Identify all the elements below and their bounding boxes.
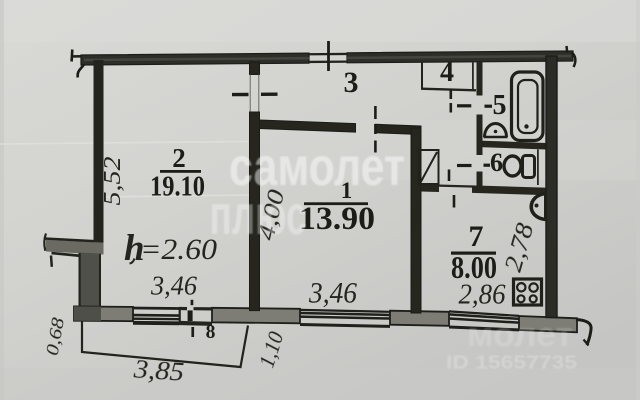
svg-text:19.10: 19.10	[150, 171, 205, 203]
wall: bottom exterior segment B	[212, 308, 300, 324]
svg-text:ID 15657735: ID 15657735	[446, 353, 577, 373]
tick: left step	[50, 256, 53, 267]
hook: top-left below wall	[78, 65, 84, 78]
label: room 7 underline	[451, 252, 496, 255]
svg-text:6: 6	[490, 148, 503, 177]
wall: bottom exterior segment A	[74, 306, 133, 321]
svg-text:4: 4	[440, 57, 454, 88]
svg-text:3,46: 3,46	[308, 277, 357, 310]
window: kitchen	[449, 310, 519, 331]
door: entrance opening lines	[309, 53, 347, 63]
stove	[514, 279, 542, 305]
wall: kitchen top (left piece)	[421, 184, 439, 192]
bathtub	[512, 72, 544, 141]
window: room 2	[133, 307, 179, 326]
svg-text:плюс: плюс	[210, 183, 307, 246]
door axis: balcony door	[188, 300, 194, 337]
door axis: kitchen door	[453, 195, 456, 208]
tick: top-left wall end	[70, 50, 73, 62]
svg-text:молет: молет	[467, 316, 573, 354]
wash sink (bathroom)	[484, 124, 508, 137]
door axis: room 2 door	[232, 93, 249, 96]
window: room 2 right jamb	[179, 307, 181, 325]
svg-text:3,46: 3,46	[150, 271, 197, 301]
hook: bottom-right wall end	[576, 320, 591, 346]
balcony outline	[82, 322, 248, 368]
wall: bath/toilet divider	[477, 141, 547, 150]
svg-text:3,85: 3,85	[132, 354, 185, 386]
wall: kitchen top (opening lintel line)	[439, 185, 472, 188]
svg-text:7: 7	[469, 220, 484, 253]
wall: kitchen top (right piece)	[472, 185, 557, 195]
wall: room1/kitchen divider	[411, 128, 421, 313]
door: room 2 doorway face lines	[250, 75, 259, 112]
svg-text:5,52: 5,52	[100, 157, 126, 206]
wall: left step ledge gray band	[46, 240, 104, 255]
wall: bottom exterior segment D	[519, 316, 577, 332]
wall: bottom exterior segment C	[390, 311, 449, 326]
wall: right exterior	[546, 56, 557, 318]
built-in closet with diagonal	[419, 150, 439, 184]
wall: bathroom left segment 3	[477, 172, 483, 194]
door axis: entrance	[327, 41, 330, 71]
svg-text:13.90: 13.90	[299, 201, 375, 237]
label: room 2 underline	[160, 170, 201, 173]
door axis: room 1 door	[374, 106, 377, 153]
kitchen sink	[531, 193, 545, 221]
door axis: bath door	[457, 104, 471, 107]
svg-text:3: 3	[344, 66, 359, 99]
wall: bathroom left segment 1	[477, 62, 483, 96]
toilet	[504, 156, 535, 178]
wall: bathroom left segment 2	[477, 115, 483, 156]
crease lines (paper fold artifacts)	[0, 142, 250, 198]
wall: top exterior	[72, 51, 574, 65]
closet room 4: left edge	[421, 63, 423, 90]
tick: top-right wall end	[565, 46, 568, 53]
wall: room2/room3 divider upper	[250, 62, 260, 75]
door: balcony door top and bottom lines	[181, 307, 213, 326]
wall: left step bottom edge	[52, 252, 79, 257]
svg-text:2,86: 2,86	[459, 279, 506, 311]
wall: room 1 top (left of door)	[260, 120, 356, 132]
window: room 1	[300, 309, 390, 328]
closet room 4: right thin line	[472, 63, 474, 90]
toilet room: right thin line	[537, 150, 539, 186]
closet room 4: bottom edge	[421, 89, 476, 91]
wall: bottom-left corner dark	[74, 306, 101, 321]
svg-text:=2.60: =2.60	[140, 233, 217, 266]
hook: left step end	[44, 234, 46, 251]
hook: top-right wall end	[572, 53, 576, 68]
svg-text:8: 8	[206, 322, 216, 343]
svg-text:2: 2	[172, 143, 186, 173]
wall: left exterior lower	[79, 253, 102, 314]
door axis: toilet door	[457, 164, 472, 167]
wall: left step top edge	[45, 237, 95, 242]
door axis: closet door	[449, 90, 452, 113]
wall: left exterior upper	[94, 60, 104, 243]
wall: room 1 top (right of door)	[376, 124, 422, 134]
wall: room2/room1 divider lower	[250, 112, 260, 311]
label: room 1 underline	[304, 202, 368, 205]
svg-text:5: 5	[493, 90, 507, 121]
